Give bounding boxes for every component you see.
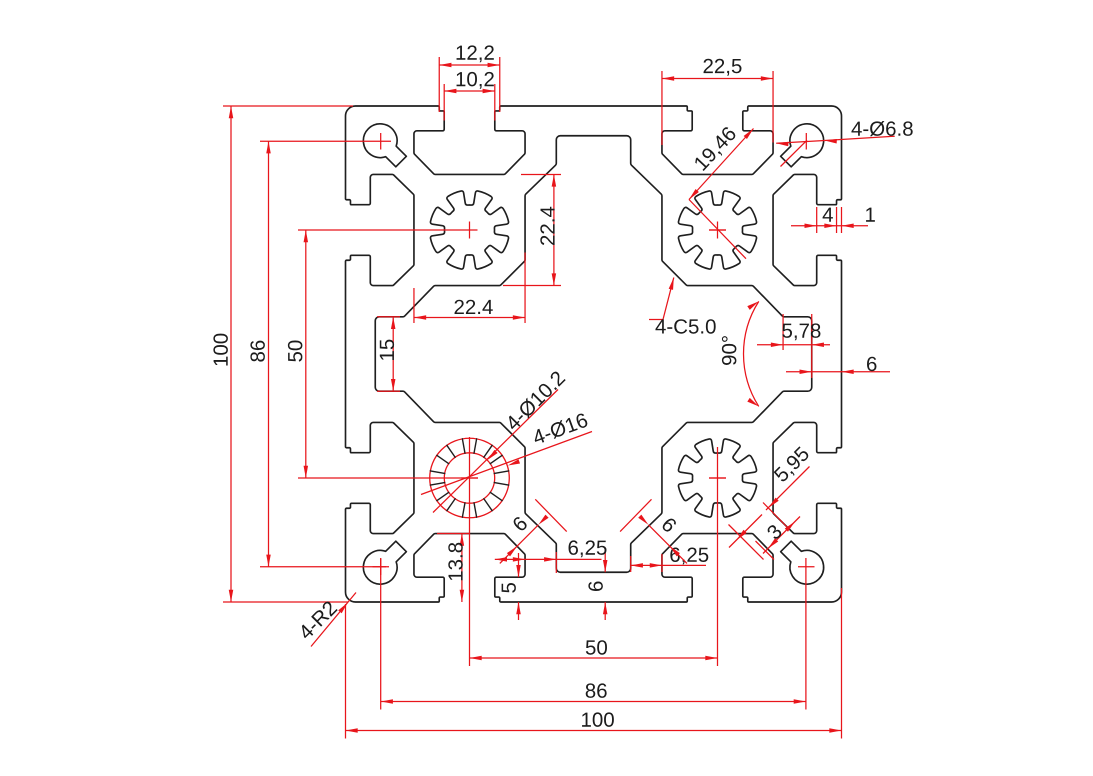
dimension 22.4 block height xyxy=(503,174,561,285)
gear core bore bottom-right xyxy=(678,439,756,517)
gear core bore top-left xyxy=(430,191,508,269)
labels 4-Ø10.2 and 4-Ø16 threaded bore leaders xyxy=(421,390,592,513)
label 4-Ø6.8 corner hole leader xyxy=(776,136,895,166)
dimension 5 bottom lip depth xyxy=(518,553,520,620)
profile outer contour with 8 T-slots xyxy=(345,106,841,602)
centre marks xyxy=(373,133,815,575)
dimension 6 bottom wall thickness xyxy=(604,548,606,620)
threaded core bore bottom-left: red circles xyxy=(430,438,510,518)
corner keyhole top-left xyxy=(363,124,406,167)
dimension 13.8 cavity depth xyxy=(437,534,470,602)
dimension 19,46 gear bore diagonal xyxy=(689,129,754,259)
dimensions 6 diagonal webs xyxy=(500,499,687,563)
dimensions 4 and 1 right slot lip xyxy=(791,207,868,233)
corner keyhole bottom-right xyxy=(781,541,824,584)
corner keyhole bottom-left xyxy=(363,541,406,584)
corner keyhole top-right xyxy=(781,124,824,167)
dimension 6,25 bottom-left lip overhang xyxy=(495,552,602,573)
dimension 22,5 top-right slot cavity width xyxy=(662,71,773,145)
dimension 15 left arm pocket height xyxy=(377,317,400,391)
label 4-C5.0 chamfer leader xyxy=(649,278,674,320)
dimension 22.4 block width xyxy=(414,253,525,324)
gear core bore top-right xyxy=(678,191,756,269)
dimension 90 degree angle arc xyxy=(744,301,759,406)
dimension 10,2 top slot opening xyxy=(444,84,495,121)
central cavity xyxy=(375,136,811,572)
dimensions 50 86 100 bottom chain xyxy=(346,447,842,739)
dimension 6,25 bottom-right web xyxy=(631,554,706,572)
threaded core bore flank lines xyxy=(430,439,508,517)
dimension 12,2 top slot outer opening xyxy=(439,57,500,112)
dimensions 5,95 and 3 keyhole slot xyxy=(729,467,810,560)
label 4-R2 corner radius leader xyxy=(311,593,356,647)
dimensions 100 86 50 left chain xyxy=(223,106,478,602)
dimension 6 right wall thickness xyxy=(786,371,890,373)
dimension 5,78 right arm pocket xyxy=(757,314,830,378)
